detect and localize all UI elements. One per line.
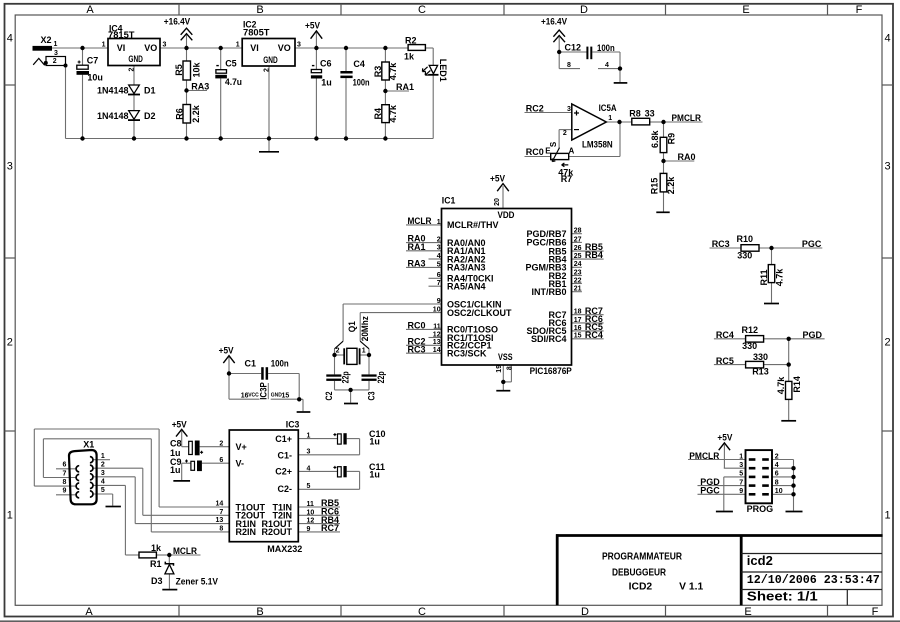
svg-text:F: F <box>872 606 879 618</box>
svg-text:R8: R8 <box>629 109 641 119</box>
svg-text:2: 2 <box>128 68 135 72</box>
svg-text:14: 14 <box>433 347 441 354</box>
svg-text:3: 3 <box>297 41 301 48</box>
svg-text:1k: 1k <box>151 543 162 553</box>
svg-text:VSS: VSS <box>498 352 513 362</box>
svg-text:8: 8 <box>62 479 66 486</box>
svg-text:4: 4 <box>884 33 890 45</box>
svg-text:4: 4 <box>7 33 13 45</box>
svg-text:+5V: +5V <box>305 21 320 31</box>
svg-text:3: 3 <box>163 41 167 48</box>
svg-text:R15: R15 <box>650 178 660 195</box>
svg-text:10k: 10k <box>192 62 202 78</box>
svg-text:2.2k: 2.2k <box>191 104 201 123</box>
svg-text:RC4: RC4 <box>585 330 603 340</box>
svg-text:7: 7 <box>219 509 223 516</box>
svg-text:1N4148: 1N4148 <box>97 111 129 121</box>
svg-text:RA3/AN3: RA3/AN3 <box>447 263 486 273</box>
svg-text:VO: VO <box>278 43 291 53</box>
svg-text:X1: X1 <box>83 440 94 450</box>
svg-text:INT/RB0: INT/RB0 <box>531 287 566 297</box>
svg-text:RA5/AN4: RA5/AN4 <box>447 282 486 292</box>
svg-text:2: 2 <box>101 461 105 468</box>
svg-text:330: 330 <box>737 250 752 260</box>
svg-text:3: 3 <box>101 470 105 477</box>
svg-text:RC0: RC0 <box>526 147 544 157</box>
svg-text:C2+: C2+ <box>275 467 292 477</box>
svg-text:8: 8 <box>507 366 514 370</box>
svg-text:S: S <box>549 141 558 147</box>
svg-text:1: 1 <box>362 348 366 355</box>
svg-text:PGC: PGC <box>700 486 720 496</box>
svg-text:VCC: VCC <box>248 393 259 399</box>
svg-text:C5: C5 <box>225 58 237 68</box>
svg-text:RC2: RC2 <box>526 104 544 114</box>
svg-text:18: 18 <box>574 309 582 316</box>
svg-text:5: 5 <box>307 483 311 490</box>
svg-text:D: D <box>580 4 588 16</box>
svg-text:7: 7 <box>437 280 441 287</box>
svg-text:RC3: RC3 <box>712 239 730 249</box>
svg-text:13: 13 <box>216 517 224 524</box>
svg-text:14: 14 <box>216 501 224 508</box>
svg-text:C3: C3 <box>367 392 377 401</box>
svg-text:10: 10 <box>433 307 441 314</box>
svg-text:1: 1 <box>7 510 13 522</box>
svg-text:IC1: IC1 <box>442 196 456 206</box>
svg-text:3: 3 <box>7 161 13 173</box>
svg-text:A: A <box>85 606 93 618</box>
svg-text:OSC2/CLKOUT: OSC2/CLKOUT <box>447 308 512 318</box>
svg-text:IC3P: IC3P <box>259 382 269 400</box>
svg-text:1: 1 <box>884 510 890 522</box>
svg-text:C7: C7 <box>87 56 99 66</box>
svg-text:1: 1 <box>307 433 311 440</box>
svg-text:3: 3 <box>884 161 890 173</box>
svg-text:7815T: 7815T <box>108 30 135 40</box>
svg-text:R1: R1 <box>150 559 162 569</box>
svg-text:PMCLR: PMCLR <box>672 113 702 123</box>
svg-text:MCLR: MCLR <box>173 546 197 556</box>
svg-text:RC3/SCK: RC3/SCK <box>447 349 487 359</box>
svg-text:C2: C2 <box>324 392 334 401</box>
svg-text:4: 4 <box>101 479 105 486</box>
svg-text:15: 15 <box>282 392 290 399</box>
svg-text:100n: 100n <box>597 43 615 53</box>
svg-text:GND: GND <box>128 54 143 64</box>
svg-text:D2: D2 <box>144 111 156 121</box>
svg-text:RA1: RA1 <box>396 82 414 92</box>
svg-text:VO: VO <box>144 43 157 53</box>
svg-text:1u: 1u <box>170 465 181 475</box>
svg-text:PROGRAMMATEUR: PROGRAMMATEUR <box>602 551 683 562</box>
svg-text:3: 3 <box>739 462 743 469</box>
svg-text:PGD: PGD <box>803 330 823 340</box>
svg-text:B: B <box>256 606 263 618</box>
svg-text:13: 13 <box>433 339 441 346</box>
svg-text:R11: R11 <box>759 269 769 285</box>
svg-text:icd2: icd2 <box>747 553 773 568</box>
svg-text:R4: R4 <box>373 108 383 120</box>
svg-text:PIC16876P: PIC16876P <box>530 366 572 376</box>
svg-text:V+: V+ <box>236 442 247 452</box>
svg-text:25: 25 <box>574 253 582 260</box>
svg-text:9: 9 <box>437 298 441 305</box>
svg-text:C: C <box>418 4 426 16</box>
svg-text:2: 2 <box>219 440 223 447</box>
svg-text:20Mhz: 20Mhz <box>360 316 370 341</box>
svg-text:8: 8 <box>567 62 571 69</box>
svg-text:28: 28 <box>574 228 582 235</box>
svg-text:15: 15 <box>574 333 582 340</box>
svg-text:1: 1 <box>54 41 58 48</box>
svg-text:R2IN: R2IN <box>236 527 257 537</box>
svg-text:3: 3 <box>567 106 571 113</box>
svg-text:MCLR#/THV: MCLR#/THV <box>447 220 499 230</box>
svg-text:+5V: +5V <box>172 419 187 429</box>
svg-text:26: 26 <box>574 245 582 252</box>
svg-text:R3: R3 <box>373 66 383 78</box>
svg-text:C2-: C2- <box>277 484 292 494</box>
svg-text:+5V: +5V <box>219 345 234 355</box>
svg-text:A: A <box>569 146 575 155</box>
svg-text:12: 12 <box>433 331 441 338</box>
svg-text:RB4: RB4 <box>585 250 603 260</box>
svg-text:16: 16 <box>574 325 582 332</box>
svg-text:RC5: RC5 <box>716 356 734 366</box>
svg-text:4: 4 <box>775 462 779 469</box>
svg-text:+5V: +5V <box>717 432 732 442</box>
svg-text:C1+: C1+ <box>275 434 292 444</box>
svg-text:R7: R7 <box>561 174 573 184</box>
svg-text:12/10/2006 23:53:47: 12/10/2006 23:53:47 <box>747 573 880 587</box>
svg-text:SDI/RC4: SDI/RC4 <box>531 334 567 344</box>
svg-text:2: 2 <box>336 348 340 355</box>
svg-text:IC3: IC3 <box>286 420 300 430</box>
svg-text:+16.4V: +16.4V <box>541 17 567 27</box>
svg-text:6: 6 <box>437 272 441 279</box>
svg-text:RA1: RA1 <box>408 242 426 252</box>
svg-text:C12: C12 <box>565 43 582 53</box>
svg-text:X2: X2 <box>41 35 52 45</box>
svg-text:4.7u: 4.7u <box>225 77 242 87</box>
svg-text:1: 1 <box>437 219 441 226</box>
svg-text:GND: GND <box>263 55 278 65</box>
svg-text:RC3: RC3 <box>408 344 426 354</box>
svg-text:RA0: RA0 <box>678 152 696 162</box>
svg-text:R6: R6 <box>174 108 184 120</box>
svg-text:11: 11 <box>307 501 315 508</box>
svg-text:2.2k: 2.2k <box>666 176 676 195</box>
svg-text:2: 2 <box>437 237 441 244</box>
svg-text:C1: C1 <box>245 359 257 369</box>
svg-text:330: 330 <box>742 341 757 351</box>
svg-text:R2: R2 <box>405 36 417 46</box>
svg-text:C1-: C1- <box>277 450 292 460</box>
svg-text:22p: 22p <box>376 371 386 383</box>
svg-text:R10: R10 <box>737 234 754 244</box>
svg-text:3: 3 <box>437 245 441 252</box>
svg-text:R9: R9 <box>667 133 677 145</box>
svg-text:2: 2 <box>263 68 270 72</box>
svg-text:R5: R5 <box>174 64 184 76</box>
svg-text:9: 9 <box>739 488 743 495</box>
svg-text:10: 10 <box>775 488 783 495</box>
svg-text:IC5A: IC5A <box>599 103 617 113</box>
svg-text:5: 5 <box>101 487 105 494</box>
svg-text:RA3: RA3 <box>191 82 209 92</box>
svg-text:VDD: VDD <box>498 210 515 220</box>
svg-text:4.7k: 4.7k <box>388 62 398 81</box>
svg-text:4: 4 <box>307 465 311 472</box>
svg-text:5: 5 <box>437 261 441 268</box>
svg-text:6: 6 <box>62 462 66 469</box>
svg-text:6: 6 <box>775 471 779 478</box>
svg-text:D: D <box>581 606 589 618</box>
svg-text:V-: V- <box>236 459 245 469</box>
svg-text:4.7k: 4.7k <box>776 376 786 395</box>
svg-text:R12: R12 <box>742 325 759 335</box>
svg-text:17: 17 <box>574 317 582 324</box>
svg-text:23: 23 <box>574 269 582 276</box>
svg-text:12: 12 <box>307 518 315 525</box>
svg-text:MCLR: MCLR <box>408 216 432 226</box>
svg-text:C: C <box>418 606 426 618</box>
svg-text:330: 330 <box>753 352 768 362</box>
svg-text:RC7: RC7 <box>321 523 339 533</box>
svg-text:DEBUGGEUR: DEBUGGEUR <box>612 568 667 579</box>
svg-text:10: 10 <box>307 509 315 516</box>
svg-text:100n: 100n <box>353 78 370 88</box>
svg-text:20: 20 <box>494 198 501 206</box>
svg-text:1: 1 <box>739 453 743 460</box>
svg-text:PMCLR: PMCLR <box>689 451 719 461</box>
svg-text:8: 8 <box>219 526 223 533</box>
svg-text:D3: D3 <box>151 576 163 586</box>
svg-text:Sheet: 1/1: Sheet: 1/1 <box>747 590 818 604</box>
svg-text:7: 7 <box>739 479 743 486</box>
svg-text:E: E <box>742 4 749 16</box>
svg-text:R2OUT: R2OUT <box>261 527 292 537</box>
svg-text:4.7k: 4.7k <box>388 104 398 123</box>
svg-text:R14: R14 <box>792 376 802 393</box>
svg-text:5: 5 <box>739 471 743 478</box>
svg-text:1: 1 <box>236 41 240 48</box>
svg-text:22: 22 <box>574 277 582 284</box>
svg-text:22p: 22p <box>341 371 351 383</box>
svg-text:+5V: +5V <box>490 174 505 184</box>
svg-text:C6: C6 <box>320 59 332 69</box>
svg-text:R13: R13 <box>752 367 769 377</box>
svg-text:Q1: Q1 <box>347 321 357 332</box>
svg-text:B: B <box>256 4 263 16</box>
svg-text:V 1.1: V 1.1 <box>679 582 703 593</box>
svg-text:RA3: RA3 <box>408 259 426 269</box>
svg-text:LED1: LED1 <box>438 59 448 82</box>
svg-text:4.7k: 4.7k <box>775 268 785 287</box>
svg-text:6.8k: 6.8k <box>650 129 660 148</box>
svg-text:PROG: PROG <box>747 504 774 514</box>
svg-text:1N4148: 1N4148 <box>97 85 129 95</box>
svg-text:E: E <box>744 606 751 618</box>
svg-text:9: 9 <box>307 526 311 533</box>
svg-text:6: 6 <box>219 457 223 464</box>
svg-text:3: 3 <box>54 50 58 57</box>
svg-text:21: 21 <box>574 286 582 293</box>
svg-text:24: 24 <box>574 261 582 268</box>
svg-text:33: 33 <box>645 109 655 119</box>
svg-text:4: 4 <box>605 62 609 69</box>
svg-text:7805T: 7805T <box>243 28 270 38</box>
svg-text:GND: GND <box>271 393 283 399</box>
svg-text:11: 11 <box>433 323 441 330</box>
svg-text:1u: 1u <box>369 437 380 447</box>
svg-text:2: 2 <box>884 337 890 349</box>
svg-text:F: F <box>856 4 863 16</box>
svg-text:2: 2 <box>563 130 567 137</box>
svg-text:1u: 1u <box>369 470 380 480</box>
svg-text:3: 3 <box>307 449 311 456</box>
svg-text:Zener 5.1V: Zener 5.1V <box>176 577 218 587</box>
svg-text:7: 7 <box>62 470 66 477</box>
svg-text:VI: VI <box>250 43 259 53</box>
svg-text:VI: VI <box>117 43 126 53</box>
svg-text:8: 8 <box>775 479 779 486</box>
svg-text:10u: 10u <box>87 72 103 82</box>
svg-text:1u: 1u <box>321 78 332 88</box>
svg-text:1: 1 <box>608 115 612 122</box>
svg-text:ICD2: ICD2 <box>629 582 653 593</box>
svg-text:2: 2 <box>7 337 13 349</box>
svg-text:1k: 1k <box>404 51 415 61</box>
svg-text:9: 9 <box>62 488 66 495</box>
svg-text:C4: C4 <box>353 59 365 69</box>
svg-text:19: 19 <box>496 365 503 373</box>
svg-text:LM358N: LM358N <box>582 140 613 150</box>
svg-text:100n: 100n <box>271 359 289 369</box>
svg-text:RC0: RC0 <box>408 321 426 331</box>
svg-text:RC4: RC4 <box>716 330 734 340</box>
svg-text:1: 1 <box>102 41 106 48</box>
svg-text:2: 2 <box>53 58 57 65</box>
svg-text:MAX232: MAX232 <box>267 544 302 554</box>
svg-text:PGC: PGC <box>802 239 822 249</box>
svg-text:D1: D1 <box>144 85 156 95</box>
svg-text:4: 4 <box>437 253 441 260</box>
svg-text:27: 27 <box>574 236 582 243</box>
svg-text:A: A <box>86 4 94 16</box>
svg-text:2: 2 <box>775 453 779 460</box>
svg-text:+16.4V: +16.4V <box>164 16 190 26</box>
svg-text:1: 1 <box>101 453 105 460</box>
